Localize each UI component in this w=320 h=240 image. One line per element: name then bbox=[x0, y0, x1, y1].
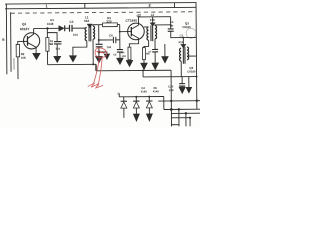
ground arrow C7 bbox=[152, 63, 159, 70]
diode D4 triangle bbox=[133, 102, 139, 108]
wire R2 bottom down bbox=[17, 57, 19, 79]
transformer L3 core lines bbox=[183, 47, 185, 64]
transistor Q2 emitter lead bbox=[129, 34, 138, 47]
svg-text:C7: C7 bbox=[148, 50, 152, 54]
diode D4 wire bottom bbox=[135, 108, 137, 114]
svg-text:4148: 4148 bbox=[153, 89, 159, 93]
node dot 171 y110 bbox=[170, 108, 173, 111]
svg-text:C4: C4 bbox=[170, 20, 174, 24]
capacitor C3 plates bbox=[69, 25, 72, 32]
svg-text:C9180: C9180 bbox=[187, 69, 196, 73]
wire C5 to ground bbox=[98, 47, 100, 57]
wire Q2 collector rail bbox=[138, 16, 170, 18]
mesh vertical x185 bbox=[185, 113, 187, 126]
resistor R5 body bbox=[142, 48, 145, 60]
border zone tick 1 bbox=[84, 3, 86, 8]
border zone tick 2 bbox=[174, 3, 176, 8]
svg-text:L3: L3 bbox=[180, 33, 184, 37]
inner frame dashed top bbox=[11, 12, 196, 13]
diode D3 wire bottom bbox=[123, 108, 125, 118]
wire L3 left bottom down bbox=[180, 61, 182, 77]
svg-text:104: 104 bbox=[55, 47, 60, 51]
stray short line left bbox=[13, 58, 15, 69]
svg-text:616: 616 bbox=[179, 40, 184, 44]
transformer L1 left winding bbox=[85, 28, 87, 41]
svg-text:104: 104 bbox=[107, 45, 112, 49]
diode D5 wire bottom bbox=[148, 108, 150, 114]
transformer L3 top arrow bbox=[181, 44, 186, 48]
capacitor C7 plates bbox=[152, 49, 158, 51]
border outer left line bbox=[5, 4, 8, 74]
wire L1 right top to R1 node bbox=[93, 25, 99, 26]
node dot diode2 bbox=[135, 96, 137, 98]
svg-text:104: 104 bbox=[73, 33, 78, 37]
wire node A vertical bbox=[98, 25, 100, 44]
node dot diode3 bbox=[148, 96, 150, 98]
mesh wire y110 bbox=[164, 108, 200, 110]
node dot L1 bus bbox=[92, 63, 94, 65]
diode D5 triangle bbox=[146, 102, 152, 108]
svg-text:1: 1 bbox=[46, 3, 49, 8]
border right line bbox=[195, 3, 198, 110]
transistor Q1 circle bbox=[23, 33, 39, 49]
node dot 171 y101 bbox=[170, 100, 172, 102]
capacitor C4 plates bbox=[113, 37, 115, 43]
node dot Q2 base bbox=[119, 31, 121, 33]
diode D1 triangle bbox=[59, 26, 65, 32]
wire C4b down and right bbox=[171, 31, 197, 38]
red stroke down 2 bbox=[98, 57, 103, 86]
diode D3 bar bbox=[121, 100, 127, 102]
wire L2 left bottom to R5 bbox=[144, 40, 149, 47]
wire L2 right top to C4b bbox=[155, 24, 171, 27]
transistor Q1 collector lead bbox=[27, 29, 33, 39]
ground arrow Q1 emitter bbox=[33, 53, 41, 59]
svg-text:4148: 4148 bbox=[47, 22, 54, 26]
wire L3 right tap bbox=[187, 55, 196, 57]
node dot 178 y110 bbox=[178, 108, 180, 110]
mesh vertical x189 bbox=[189, 118, 191, 127]
resistor R1 body bbox=[102, 23, 117, 27]
wire Q2 vertical at base node bbox=[119, 25, 121, 50]
svg-text:Q1: Q1 bbox=[22, 22, 27, 26]
mesh wire y101 bbox=[158, 100, 200, 102]
transformer L2 right winding bbox=[155, 26, 157, 39]
arrow under D5 bbox=[146, 114, 152, 121]
node dot 196 y101 bbox=[196, 100, 198, 102]
transistor Q2 base bar bbox=[130, 27, 132, 36]
border outer top line bbox=[5, 3, 196, 5]
capacitor C6 plates bbox=[117, 50, 123, 53]
capacitor C5 plates bbox=[96, 44, 103, 47]
wire Q2 to L2 left top bbox=[144, 26, 149, 28]
svg-text:10K: 10K bbox=[21, 56, 27, 60]
node dot 143 bus bbox=[142, 70, 144, 72]
diode D4 wire top bbox=[135, 97, 137, 101]
capacitor C4b plates bbox=[168, 29, 174, 31]
node dot at 171 bbox=[170, 24, 172, 26]
faint transistor blob upper right bbox=[186, 28, 196, 38]
wire row y77 bbox=[143, 76, 196, 78]
red scribble base bbox=[88, 83, 103, 88]
resistor R3 body bbox=[46, 38, 49, 52]
red inner squiggle bbox=[97, 51, 104, 53]
diode D4 bar bbox=[133, 100, 139, 102]
resistor R4 body bbox=[128, 47, 131, 60]
wire C2 branch bbox=[47, 33, 57, 42]
svg-text:4148: 4148 bbox=[141, 89, 147, 93]
ground arrow at 165 bbox=[162, 56, 169, 63]
wire rail drop to L2 bbox=[152, 17, 154, 23]
wire C3 to L1 bbox=[72, 27, 85, 29]
diode bus y97 bbox=[119, 96, 163, 98]
capacitor C2 plates bbox=[54, 42, 61, 44]
svg-text:3P: 3P bbox=[170, 24, 174, 28]
node blob at red mark bbox=[98, 51, 101, 54]
wire Q2 base bbox=[120, 31, 132, 33]
resistor R2 body bbox=[16, 44, 19, 56]
diode D3 wire top bbox=[123, 97, 125, 101]
transistor Q1 emitter lead bbox=[28, 43, 36, 48]
wire C4 row bbox=[99, 39, 120, 41]
svg-text:C2: C2 bbox=[49, 42, 53, 46]
transformer L3 left winding bbox=[179, 48, 181, 61]
wire L2 right bottom to C7 bbox=[154, 39, 156, 50]
red loop around node bbox=[95, 48, 107, 58]
ground arrow C5 bbox=[95, 56, 102, 62]
node dot 189 y118 bbox=[189, 117, 191, 119]
mesh short wire y125 bbox=[171, 124, 179, 126]
wire R3 bottom to bus bbox=[46, 51, 48, 64]
wire L1 right bottom to bus bbox=[92, 39, 94, 64]
wire L3 top drop bbox=[182, 38, 184, 45]
ground arrow C6 bbox=[117, 58, 124, 64]
border band inner line bbox=[5, 7, 196, 9]
svg-text:616: 616 bbox=[84, 19, 89, 23]
wire collector rail top bbox=[34, 27, 59, 29]
transformer L1 right winding bbox=[93, 26, 95, 39]
svg-text:C4: C4 bbox=[109, 33, 113, 37]
svg-text:L2: L2 bbox=[151, 13, 155, 17]
svg-text:9018Y: 9018Y bbox=[20, 27, 30, 31]
node dot rail at R3 bbox=[46, 27, 48, 29]
svg-text:CT1840: CT1840 bbox=[125, 19, 137, 23]
mesh vertical x178 bbox=[178, 109, 180, 126]
ground arrow x188.7 bbox=[186, 87, 192, 93]
svg-text:Q3: Q3 bbox=[189, 66, 193, 70]
wire R1 right lead bbox=[117, 24, 119, 26]
wire Q1 emitter down bbox=[35, 48, 37, 54]
wire C6 to ground bbox=[119, 52, 121, 58]
wire stub x188.7 bbox=[188, 77, 190, 88]
red stroke down 1 bbox=[93, 57, 100, 84]
bus jog vertical bbox=[95, 64, 97, 70]
svg-text:103: 103 bbox=[122, 54, 127, 58]
wire junction right stub bbox=[99, 52, 110, 60]
diode D1 cathode bar bbox=[64, 25, 66, 31]
node dot 185 y114 bbox=[185, 112, 187, 114]
transformer L1 top arrow bbox=[87, 24, 92, 28]
wire L1 left bottom to ground bbox=[73, 41, 87, 56]
arrow under D4 bbox=[133, 114, 139, 121]
transformer L2 top arrow bbox=[150, 23, 155, 27]
diode bus tick bbox=[118, 93, 120, 97]
wire D1 to C3 bbox=[65, 27, 70, 29]
transformer L3 right winding bbox=[187, 47, 189, 60]
transistor Q2 circle bbox=[128, 23, 145, 40]
bus wire y64 bbox=[48, 63, 96, 65]
ground arrow C20 bbox=[179, 87, 185, 93]
bus wire y71 bbox=[96, 69, 171, 72]
svg-text:C3: C3 bbox=[69, 20, 73, 24]
transformer L2 left winding bbox=[147, 27, 149, 40]
svg-text:R4: R4 bbox=[121, 50, 125, 54]
mesh wire y114 bbox=[171, 112, 200, 114]
svg-text:C6: C6 bbox=[113, 52, 117, 56]
node dot L3 drop bbox=[182, 37, 184, 39]
diode D5 wire top bbox=[148, 97, 150, 101]
transistor Q2 collector lead bbox=[131, 17, 138, 29]
border inner left line bbox=[10, 12, 12, 71]
wire C20 drop bbox=[181, 77, 183, 84]
wire C2 to ground bbox=[56, 44, 58, 56]
wire R3 branch down bbox=[46, 28, 48, 37]
ground arrow L1 bbox=[69, 56, 76, 62]
diode bus right drop bbox=[163, 97, 165, 110]
wire 171 vertical bbox=[170, 17, 172, 29]
wire Q1 base to R2 bbox=[18, 41, 28, 44]
ground arrow at 107 bbox=[104, 54, 110, 60]
ground arrow C2 bbox=[54, 56, 61, 62]
diode D5 bar bbox=[146, 100, 152, 102]
wire R4 bottom bbox=[128, 59, 130, 62]
node dot y77 at 196 bbox=[196, 76, 198, 78]
transistor Q1 base bar bbox=[26, 36, 28, 46]
svg-text:B: B bbox=[2, 38, 5, 42]
mesh vertical x171 bbox=[170, 70, 172, 126]
transformer L2 core lines bbox=[151, 25, 153, 41]
svg-text:2: 2 bbox=[149, 3, 152, 8]
wire R1 left lead bbox=[99, 24, 103, 26]
transformer L1 core lines bbox=[89, 26, 91, 42]
capacitor C20 plates bbox=[179, 84, 185, 86]
node dot A bbox=[98, 39, 100, 41]
ground arrow R5 bbox=[141, 63, 148, 70]
wire C7 to ground bbox=[154, 52, 156, 63]
wire stub to ground x165 bbox=[164, 44, 166, 56]
wire C20 ground stem bbox=[181, 86, 183, 87]
mesh wire y118 bbox=[171, 117, 190, 119]
ground arrow R4 bbox=[126, 60, 133, 66]
diode D3 triangle bbox=[121, 102, 127, 108]
red annotation strokes bbox=[88, 48, 107, 88]
wire R5 bottom bbox=[143, 60, 145, 63]
wire drop at 143 bbox=[142, 70, 144, 76]
